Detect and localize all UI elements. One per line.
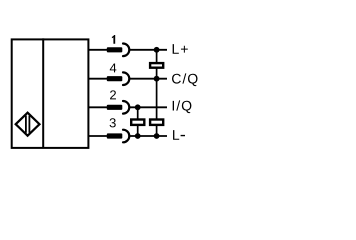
wire pin2 from body [88, 106, 107, 108]
pin number 2 [110, 90, 116, 99]
node L- right [154, 133, 160, 139]
wire C/Q [129, 78, 167, 80]
connector pin2 male contact [107, 105, 123, 110]
label C/Q [172, 73, 198, 86]
wire I/Q [129, 106, 167, 108]
load resistor L+/CQ [150, 63, 163, 68]
pin number 1 [112, 35, 115, 44]
pin number 4 [110, 63, 117, 72]
label I/Q [173, 100, 192, 113]
node I/Q [135, 104, 141, 110]
connector pin1 socket arc [123, 44, 129, 57]
proximity sensor diamond symbol [16, 113, 40, 136]
node L+ [154, 47, 160, 53]
node C/Q [154, 76, 160, 82]
diamond inner line left [25, 116, 27, 133]
wire L+ [129, 49, 167, 51]
sensor body outline [12, 39, 89, 147]
pin number 3 [110, 118, 116, 127]
label L- [173, 130, 185, 140]
connector pin1 male contact [107, 47, 123, 52]
connector pin2 socket arc [123, 101, 129, 114]
connector pin4 male contact [107, 76, 123, 81]
wire pin4 from body [88, 78, 107, 80]
sensor body divider [42, 38, 44, 147]
label L+ [173, 44, 188, 54]
node L- left [135, 133, 141, 139]
wire pin1 from body [88, 49, 107, 51]
connector pin4 socket arc [123, 72, 129, 85]
load resistor IQ/L- [131, 120, 144, 125]
diamond inner line right [28, 116, 30, 133]
connector pin3 male contact [107, 133, 123, 138]
vertical bus L+ to L- [156, 50, 158, 136]
connector pin3 socket arc [123, 130, 129, 143]
wire L- [129, 135, 167, 137]
vertical branch I/Q to L- [137, 107, 139, 136]
wire pin3 from body [88, 135, 107, 137]
load resistor CQ/L- [150, 120, 163, 125]
